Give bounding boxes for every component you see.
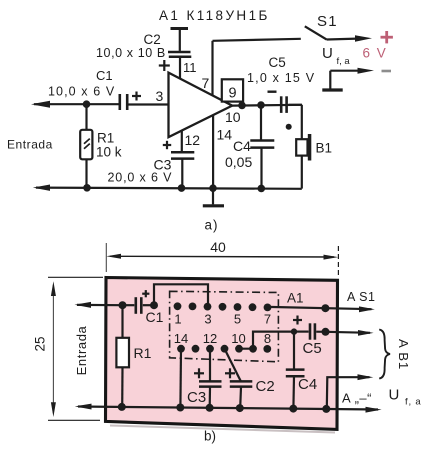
svg-text:3: 3 <box>204 312 211 327</box>
wire R1 top <box>85 104 87 130</box>
capacitor C5 <box>280 96 283 113</box>
svg-text:1: 1 <box>174 312 181 327</box>
wire C1 to pin 3 <box>129 103 169 105</box>
switch S1 <box>305 26 327 39</box>
wire input arrow <box>77 304 123 307</box>
capacitor C3 <box>199 380 222 383</box>
node R1 bottom <box>118 403 126 411</box>
svg-text:R1: R1 <box>97 131 114 146</box>
svg-text:10,0 x 10 В: 10,0 x 10 В <box>96 46 166 60</box>
svg-text:B1: B1 <box>316 141 333 156</box>
wire ground rail <box>36 188 302 189</box>
wire C5 to B1 <box>289 104 302 106</box>
svg-text:7: 7 <box>264 312 271 327</box>
svg-text:3: 3 <box>156 88 164 104</box>
svg-text:0,05: 0,05 <box>225 154 252 170</box>
svg-text:f, a: f, a <box>337 56 351 67</box>
node right edge junction <box>321 304 329 312</box>
pin 9 box <box>222 79 243 101</box>
svg-text:12: 12 <box>203 331 217 346</box>
node C1 out junction <box>150 301 158 309</box>
wire C5 to B1 arrow <box>326 332 371 333</box>
svg-text:b): b) <box>204 429 216 444</box>
wire C4 branch <box>293 332 295 370</box>
svg-text:A B1: A B1 <box>396 339 411 370</box>
wire C4 branch <box>260 105 262 140</box>
PCB board <box>106 278 338 430</box>
svg-text:R1: R1 <box>134 345 152 361</box>
wire S1 to plus <box>327 37 357 40</box>
wire output <box>232 104 302 107</box>
svg-text:a): a) <box>205 218 219 233</box>
svg-text:A „–“: A „–“ <box>342 391 372 406</box>
capacitor C4 <box>286 368 305 371</box>
node B1 return bottom <box>322 405 330 413</box>
svg-text:11: 11 <box>183 60 197 75</box>
op-amp A1 triangle <box>169 73 233 138</box>
wire pin11 jumper <box>225 349 241 381</box>
svg-text:C4: C4 <box>298 376 317 393</box>
svg-text:10,0 x 6 V: 10,0 x 6 V <box>48 85 115 99</box>
dimension 25 <box>52 285 54 413</box>
node R1 bottom <box>83 184 91 192</box>
wire R1 top <box>121 305 123 338</box>
dimension 40 <box>110 255 334 258</box>
wire minus terminal <box>330 70 359 72</box>
svg-text:10: 10 <box>225 109 241 125</box>
svg-text:Entrada: Entrada <box>74 325 89 375</box>
resistor R1 <box>80 130 92 160</box>
node pin14 bottom <box>176 404 184 412</box>
wire C2 top lead <box>179 29 181 51</box>
wire pin 7 <box>211 41 213 96</box>
svg-text:6 V: 6 V <box>363 46 388 61</box>
node plus terminal <box>381 36 393 39</box>
wire B1 to rail <box>301 156 303 189</box>
C5 minus mark <box>268 90 277 92</box>
svg-text:20,0 x 6 V: 20,0 x 6 V <box>108 171 173 185</box>
wire C3 to rail <box>181 159 183 188</box>
board bottom shadow <box>110 426 335 433</box>
svg-text:10 k: 10 k <box>96 145 122 160</box>
ground battery minus <box>322 88 342 91</box>
capacitor C2 <box>168 51 191 54</box>
svg-text:1,0 x 15 V: 1,0 x 15 V <box>247 71 315 85</box>
svg-text:C1: C1 <box>146 309 164 325</box>
svg-text:C3: C3 <box>187 389 206 406</box>
node B1 polarity dot <box>286 124 292 130</box>
pins 1-7 top row <box>174 302 182 310</box>
wire pin7 to S1 <box>268 307 372 309</box>
svg-text:C4: C4 <box>233 138 251 154</box>
wire C1 to pin 3 <box>154 284 208 306</box>
IC A1 dashed outline <box>170 291 279 362</box>
node C3 bottom <box>206 404 214 412</box>
svg-text:f, a: f, a <box>405 397 421 408</box>
svg-text:S1: S1 <box>317 13 338 30</box>
svg-text:Entrada: Entrada <box>7 138 53 152</box>
capacitor C3 <box>171 151 194 154</box>
wire pin12 to C3 <box>209 349 211 381</box>
svg-text:25: 25 <box>33 336 48 351</box>
capacitor C1 <box>119 94 122 110</box>
capacitor C4 <box>250 139 274 142</box>
svg-text:U: U <box>389 387 400 404</box>
svg-text:C2: C2 <box>144 32 161 47</box>
node C4 bottom <box>258 185 266 193</box>
wire pin 14 <box>212 115 214 188</box>
wire ground trace <box>78 407 378 410</box>
speaker B1 <box>296 139 307 155</box>
svg-text:8: 8 <box>264 331 271 346</box>
wire V+ rail <box>213 39 301 41</box>
svg-text:A1 К118УН1Б: A1 К118УН1Б <box>159 8 270 23</box>
svg-text:14: 14 <box>217 127 233 143</box>
node input junction <box>119 301 127 309</box>
wire input rail <box>34 103 120 105</box>
svg-text:U: U <box>322 45 333 62</box>
node C3 bottom <box>178 184 186 192</box>
node input junction <box>83 100 91 108</box>
node pin14 bottom <box>209 184 217 192</box>
svg-text:5: 5 <box>234 312 241 327</box>
brace A B1 <box>379 330 390 379</box>
node C4 bottom <box>289 405 297 413</box>
node C2 bottom <box>236 404 244 412</box>
wire pin 12 <box>181 131 183 152</box>
svg-text:7: 7 <box>202 75 210 91</box>
wire pin 11 <box>179 57 181 80</box>
node C5 junction <box>291 328 297 334</box>
wire B1 return <box>327 377 370 409</box>
svg-text:12: 12 <box>185 132 201 148</box>
wire pin14 down <box>179 349 182 408</box>
node C5 out junction <box>322 328 330 336</box>
svg-text:C1: C1 <box>96 68 113 83</box>
svg-text:10: 10 <box>231 331 245 346</box>
svg-text:A S1: A S1 <box>347 290 375 304</box>
pins 14-8 bottom row <box>177 345 185 353</box>
svg-text:14: 14 <box>174 331 188 346</box>
resistor R1 <box>116 338 129 368</box>
svg-text:C5: C5 <box>303 340 322 357</box>
wire pins 10-9 link <box>239 332 294 349</box>
svg-text:C2: C2 <box>256 378 275 395</box>
svg-text:40: 40 <box>210 239 226 255</box>
node output junction <box>238 102 246 110</box>
capacitor C5 <box>309 323 312 339</box>
capacitor C1 <box>123 304 135 306</box>
capacitor C2 <box>230 380 253 383</box>
capacitor C2 top terminal <box>171 27 189 30</box>
wire minus drop <box>329 71 331 89</box>
node C4 junction <box>257 101 265 109</box>
svg-text:9: 9 <box>228 86 236 102</box>
svg-text:C5: C5 <box>269 55 286 70</box>
ground <box>212 188 214 204</box>
svg-text:A1: A1 <box>287 291 304 306</box>
